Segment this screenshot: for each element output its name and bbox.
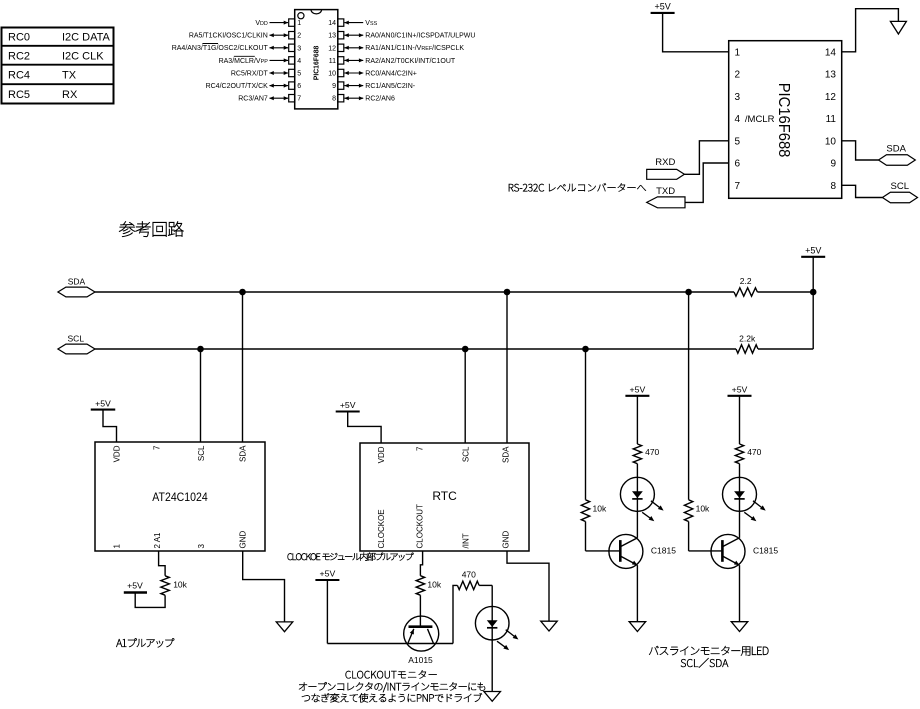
- svg-text:470: 470: [645, 447, 659, 457]
- svg-text:2: 2: [735, 70, 741, 81]
- svg-text:13: 13: [328, 33, 336, 40]
- svg-text:2.2: 2.2: [740, 276, 752, 286]
- svg-text:TXD: TXD: [656, 186, 675, 197]
- svg-text:A1015: A1015: [408, 655, 433, 665]
- svg-text:14: 14: [825, 47, 837, 58]
- svg-text:+5V: +5V: [340, 400, 356, 410]
- svg-text:7: 7: [735, 181, 741, 192]
- svg-text:6: 6: [735, 159, 741, 170]
- svg-text:10k: 10k: [593, 504, 607, 514]
- svg-text:RXD: RXD: [655, 157, 675, 168]
- svg-text:+5V: +5V: [805, 245, 821, 255]
- svg-text:5: 5: [297, 71, 301, 78]
- svg-text:+5V: +5V: [320, 569, 336, 579]
- svg-text:14: 14: [328, 20, 336, 27]
- svg-text:1: 1: [735, 47, 741, 58]
- svg-text:7: 7: [415, 446, 424, 451]
- svg-text:12: 12: [328, 45, 336, 52]
- svg-text:I2C CLK: I2C CLK: [62, 50, 104, 62]
- svg-text:6: 6: [297, 83, 301, 90]
- svg-text:10k: 10k: [696, 504, 710, 514]
- svg-text:CLOCKOUT: CLOCKOUT: [415, 504, 424, 549]
- svg-text:AT24C1024: AT24C1024: [152, 490, 208, 504]
- svg-text:PIC16F688: PIC16F688: [312, 46, 321, 81]
- svg-text:SDA: SDA: [239, 445, 248, 462]
- svg-text:RC4: RC4: [8, 69, 30, 81]
- svg-text:RC0/AN4/C2IN+: RC0/AN4/C2IN+: [365, 70, 417, 77]
- svg-text:+5V: +5V: [127, 581, 143, 591]
- svg-text:+5V: +5V: [654, 1, 670, 11]
- svg-text:11: 11: [826, 114, 837, 125]
- svg-text:VDD: VDD: [255, 20, 268, 27]
- svg-text:RC3/AN7: RC3/AN7: [238, 96, 268, 103]
- svg-text:RX: RX: [62, 89, 78, 101]
- svg-text:/MCLR: /MCLR: [745, 114, 775, 125]
- svg-text:470: 470: [462, 570, 476, 580]
- svg-text:SDA: SDA: [502, 446, 511, 463]
- svg-text:GND: GND: [239, 531, 248, 549]
- svg-text:RC5: RC5: [8, 89, 30, 101]
- svg-text:RA0/AN0/C1IN+/ICSPDAT/ULPWU: RA0/AN0/C1IN+/ICSPDAT/ULPWU: [365, 33, 475, 40]
- svg-text:SDA: SDA: [68, 277, 86, 287]
- svg-text:SCL: SCL: [462, 446, 471, 462]
- svg-text:10k: 10k: [427, 579, 441, 589]
- svg-text:3: 3: [735, 92, 741, 103]
- svg-text:8: 8: [332, 96, 336, 103]
- svg-text:2 A1: 2 A1: [153, 532, 162, 549]
- svg-text:+5V: +5V: [732, 385, 748, 395]
- svg-text:12: 12: [825, 92, 837, 103]
- svg-text:7: 7: [297, 96, 301, 103]
- svg-text:GND: GND: [502, 531, 511, 549]
- svg-text:RC1/AN5/C2IN-: RC1/AN5/C2IN-: [365, 83, 415, 90]
- svg-text:10: 10: [825, 136, 837, 147]
- svg-text:4: 4: [735, 114, 741, 125]
- svg-text:RC2/AN6: RC2/AN6: [365, 96, 395, 103]
- svg-text:+5V: +5V: [95, 398, 111, 408]
- svg-text:RTC: RTC: [432, 489, 457, 503]
- svg-text:RC4/C2OUT/TX/CK: RC4/C2OUT/TX/CK: [206, 83, 269, 90]
- svg-text:7: 7: [152, 445, 161, 450]
- svg-text:4: 4: [297, 58, 301, 65]
- svg-text:470: 470: [747, 447, 761, 457]
- svg-text:C1815: C1815: [753, 545, 778, 555]
- svg-text:RA5/T1CKI/OSC1/CLKIN: RA5/T1CKI/OSC1/CLKIN: [189, 33, 268, 40]
- svg-text:1: 1: [297, 20, 301, 27]
- svg-text:SCL: SCL: [891, 181, 909, 192]
- svg-text:SDA: SDA: [886, 143, 906, 154]
- svg-text:TX: TX: [62, 69, 77, 81]
- svg-text:RC5/RX/DT: RC5/RX/DT: [231, 70, 269, 77]
- svg-text:PIC16F688: PIC16F688: [775, 83, 792, 158]
- svg-text:10: 10: [328, 71, 336, 78]
- svg-text:VSS: VSS: [365, 20, 377, 27]
- svg-text:5: 5: [735, 136, 741, 147]
- svg-text:3: 3: [197, 544, 206, 549]
- svg-text:11: 11: [329, 58, 336, 65]
- svg-text:SCL: SCL: [197, 445, 206, 461]
- svg-text:13: 13: [825, 70, 837, 81]
- svg-text:RA3/MCLR/VPP: RA3/MCLR/VPP: [219, 58, 269, 65]
- svg-text:2.2k: 2.2k: [739, 333, 756, 343]
- svg-text:3: 3: [297, 45, 301, 52]
- svg-text:VDD: VDD: [377, 446, 386, 463]
- svg-text:VDD: VDD: [112, 445, 121, 462]
- svg-text:RA2/AN2/T0CKI/INT/C1OUT: RA2/AN2/T0CKI/INT/C1OUT: [365, 58, 456, 65]
- svg-text:I2C DATA: I2C DATA: [62, 32, 111, 44]
- svg-text:C1815: C1815: [651, 545, 676, 555]
- svg-text:10k: 10k: [173, 580, 187, 590]
- svg-text:CLOCKOE: CLOCKOE: [377, 509, 386, 548]
- svg-text:1: 1: [112, 544, 121, 549]
- svg-text:RA1/AN1/C1IN-/VREF/ICSPCLK: RA1/AN1/C1IN-/VREF/ICSPCLK: [365, 45, 464, 52]
- svg-text:9: 9: [830, 159, 836, 170]
- svg-text:+5V: +5V: [630, 385, 646, 395]
- svg-text:8: 8: [830, 181, 836, 192]
- svg-text:SCL: SCL: [68, 334, 85, 344]
- svg-text:RC2: RC2: [8, 50, 30, 62]
- svg-text:9: 9: [332, 83, 336, 90]
- svg-text:RC0: RC0: [8, 32, 30, 44]
- svg-text:/INT: /INT: [462, 533, 471, 548]
- svg-text:RA4/AN3/T1G/OSC2/CLKOUT: RA4/AN3/T1G/OSC2/CLKOUT: [172, 45, 269, 52]
- svg-text:2: 2: [297, 33, 301, 40]
